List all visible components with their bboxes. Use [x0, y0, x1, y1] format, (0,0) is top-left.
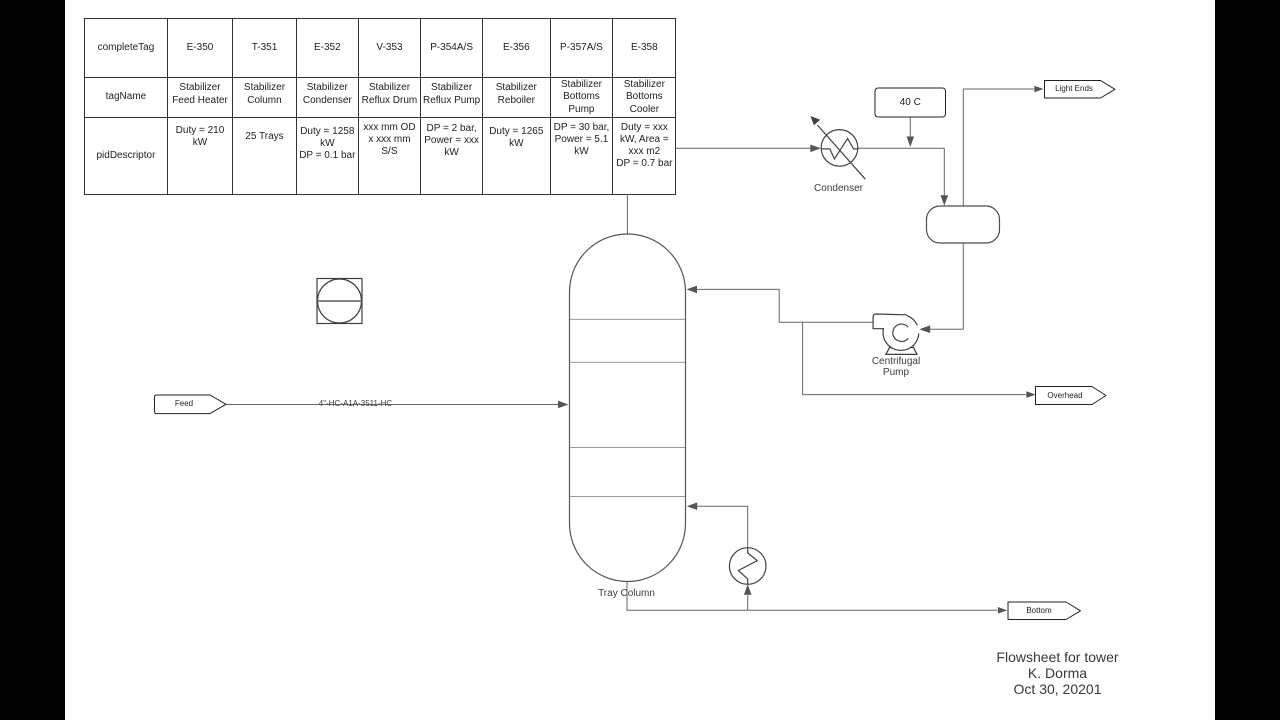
text: Centrifugal Pump — [872, 356, 920, 379]
equipment data table — [84, 18, 676, 196]
text: Overhead — [1047, 391, 1082, 400]
Overhead flag — [1036, 387, 1107, 405]
right pillarbox bar — [1215, 0, 1280, 720]
text: 40 C — [900, 97, 921, 108]
text: title block — [996, 649, 1118, 698]
40 C temperature box — [875, 88, 946, 117]
wire branch to Overhead — [803, 322, 1026, 394]
wire condenser to drum — [858, 148, 944, 196]
left pillarbox bar — [0, 0, 65, 720]
condenser zigzag coil — [822, 139, 858, 160]
wire pump discharge to column (reflux) — [696, 289, 873, 322]
pump casing circle — [883, 315, 919, 351]
wire column bottom to Bottom flag — [627, 582, 997, 611]
pump discharge nozzle — [873, 314, 906, 329]
Feed flag — [155, 395, 227, 414]
text: Light Ends — [1055, 84, 1093, 93]
condenser E-352: circle — [821, 130, 858, 167]
wire drum top to Light Ends — [963, 89, 1034, 206]
centrifugal pump P-354A/S — [883, 315, 919, 355]
wire 40C box down to condenser outlet line — [909, 117, 911, 138]
tray line 3 — [570, 447, 685, 449]
tray column T-351 — [570, 234, 686, 582]
text: Feed — [175, 399, 193, 408]
text: Bottom — [1026, 606, 1051, 615]
erase casing right gap for inlet — [916, 325, 922, 333]
pump feet — [886, 348, 917, 355]
pump impeller C — [893, 324, 908, 341]
reboiler E-356: circle — [729, 548, 766, 585]
wire table to condenser — [675, 147, 811, 149]
text: Tray Column — [598, 588, 655, 599]
tray line 4 — [570, 496, 685, 498]
tray line 1 — [570, 318, 685, 320]
tray line 2 — [570, 361, 685, 363]
reboiler zigzag coil — [738, 548, 757, 584]
wire table bottom to column top — [626, 194, 628, 234]
wire reboiler top to column (boilup) — [697, 506, 748, 548]
Bottom flag — [1008, 602, 1081, 620]
condenser diagonal utility arrow — [818, 125, 866, 179]
wire feed line — [226, 404, 558, 406]
wire branch up into reboiler — [747, 594, 749, 611]
text: feed pipe spec — [319, 399, 392, 408]
Light Ends flag — [1045, 81, 1116, 99]
square-circle instrument symbol — [317, 279, 362, 324]
pump inlet arrowhead — [920, 326, 930, 333]
text: Condenser — [814, 183, 863, 194]
reflux drum V-353 — [927, 206, 1000, 243]
wire drum bottom to pump inlet — [930, 243, 964, 329]
